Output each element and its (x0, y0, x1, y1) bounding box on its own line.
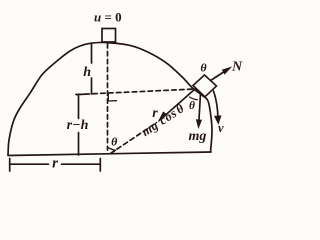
bottom r measurement right tick (99, 159, 101, 172)
center dashed vertical line (107, 44, 109, 151)
mg arrow shaft (199, 94, 201, 125)
angle arc at centre (108, 148, 116, 151)
mg arrowhead (197, 120, 202, 128)
svg-text:θ: θ (189, 100, 195, 112)
mg cos(theta) arrowhead (159, 112, 167, 121)
r-h measurement line (78, 96, 80, 155)
dashed radius r line (111, 123, 157, 154)
N arrow shaft (196, 70, 228, 91)
block on slope (193, 75, 217, 97)
hemisphere arc (8, 42, 212, 155)
h measurement line (91, 44, 93, 94)
svg-text:r−h: r−h (67, 118, 89, 133)
svg-text:N: N (231, 60, 243, 75)
N arrowhead (223, 68, 231, 74)
dashed horizontal line (77, 89, 195, 95)
svg-text:θ: θ (111, 135, 118, 149)
svg-text:θ: θ (200, 61, 207, 75)
svg-text:mg: mg (189, 129, 207, 144)
svg-text:v: v (218, 121, 224, 135)
block at top (102, 29, 116, 43)
angle arc at contact point (190, 97, 198, 100)
r-h top tick (76, 93, 86, 95)
right-angle mark (108, 95, 116, 102)
svg-text:h: h (83, 65, 91, 80)
base line (8, 152, 211, 156)
v arrow shaft (214, 91, 219, 120)
svg-text:u = 0: u = 0 (94, 10, 122, 25)
bottom r measurement line (10, 163, 100, 165)
v arrowhead (215, 116, 221, 124)
bottom r measurement left tick (9, 159, 11, 172)
svg-text:r: r (52, 156, 58, 172)
mg cos(theta) arrow shaft (161, 89, 196, 120)
